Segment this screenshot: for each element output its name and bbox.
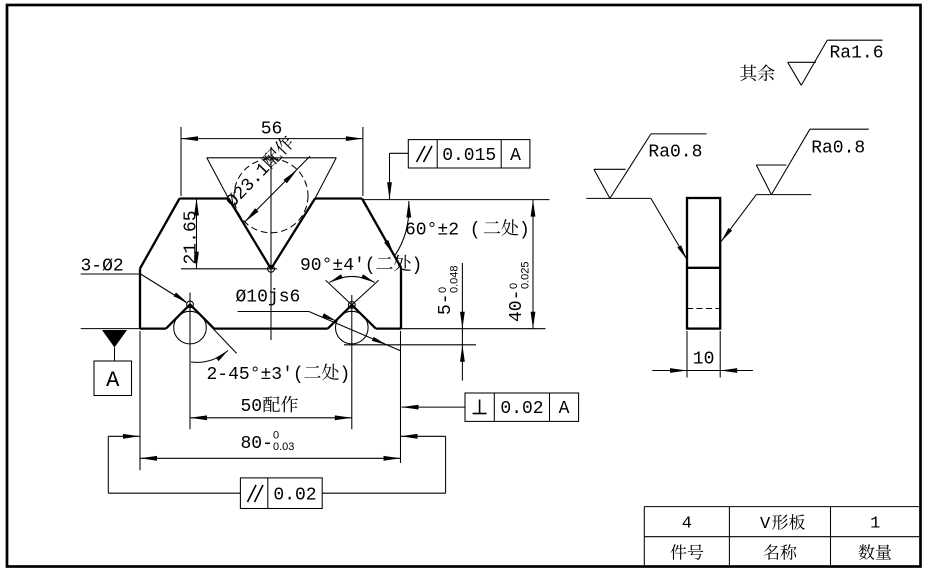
60 deg leader arc: [395, 201, 409, 256]
leader left of // 0.02: [108, 436, 240, 493]
svg-text:0: 0: [437, 287, 449, 293]
dim 40 arrows: [531, 200, 536, 329]
45 deg arc: [191, 351, 228, 363]
dashed gauge circle dia 23.1: [234, 159, 308, 233]
svg-text:Ra0.8: Ra0.8: [648, 143, 702, 163]
dim 10 arrows (outside): [670, 368, 737, 373]
V-groove side extensions above top edge: [207, 158, 336, 199]
dia10js6 leader: [238, 312, 401, 351]
leader right of // 0.02: [322, 436, 445, 493]
svg-text:): ): [340, 365, 351, 385]
pin centerline left: [189, 293, 191, 430]
relief hole at big V apex: [268, 265, 275, 272]
svg-text:2-45°±3'(: 2-45°±3'(: [207, 365, 304, 385]
svg-text:Ra1.6: Ra1.6: [830, 44, 884, 64]
pin centerline right: [351, 295, 353, 429]
leader of perp frame: [402, 406, 466, 408]
3-dia2 leader: [81, 274, 187, 303]
parallel symbol in bottom frame: [248, 485, 264, 502]
tolerance frame // 0.015 A box: [408, 140, 530, 168]
leader arrow left Ra0.8: [677, 245, 687, 259]
dim 21.65 line: [196, 199, 198, 269]
svg-text:5-: 5-: [436, 293, 456, 315]
roughness symbol left Ra0.8: [594, 134, 707, 199]
parallel symbol in frame: [417, 146, 433, 162]
svg-text:Ra0.8: Ra0.8: [811, 139, 865, 159]
side view outline: [687, 198, 720, 329]
svg-text:0.03: 0.03: [273, 441, 294, 453]
svg-text:0: 0: [508, 283, 520, 289]
svg-text:21.65: 21.65: [182, 210, 202, 264]
dim 10 extension lines: [687, 331, 720, 378]
dim 80 arrows: [140, 456, 401, 461]
dim 40-0.025 text (rotated): [507, 261, 532, 322]
svg-text:A: A: [106, 368, 120, 393]
right small V-groove (90 deg) edges: [328, 305, 376, 329]
svg-text:A: A: [510, 146, 521, 166]
leader left Ra0.8: [651, 198, 687, 259]
dia 23.1 dim arrows: [245, 170, 297, 222]
svg-text:40-: 40-: [507, 290, 527, 322]
datum A filled triangle: [102, 330, 127, 348]
svg-text:0.02: 0.02: [500, 399, 543, 419]
datum A stem: [114, 348, 116, 362]
relief hole at right groove apex: [348, 302, 355, 309]
svg-text:0.048: 0.048: [449, 265, 461, 293]
svg-text:V: V: [760, 515, 771, 534]
tolerance frame perp 0.02 A box: [465, 393, 579, 421]
dim 50 arrows: [190, 415, 352, 420]
roughness symbol Ra1.6: [788, 40, 883, 85]
dim 21.65 arrows: [194, 199, 199, 269]
svg-text:60°±2 (: 60°±2 (: [405, 221, 481, 241]
dim 10 line: [652, 370, 753, 372]
gauge pin circle in right groove: [336, 311, 369, 344]
dim 80 line: [140, 457, 401, 459]
side view edge at V apex level: [687, 267, 720, 269]
svg-text:56: 56: [261, 120, 283, 140]
leader arrow right Ra0.8: [721, 228, 732, 241]
leader right Ra0.8: [721, 195, 756, 242]
surface line right Ra0.8: [756, 194, 811, 196]
dim 56 line: [181, 138, 363, 140]
dia 23.1 dimension line at 45 deg: [245, 156, 310, 222]
part outline (V-block plate, front view): [140, 199, 401, 329]
text qiyu (others): [740, 65, 757, 81]
dim 56 arrows: [181, 136, 363, 141]
leader right arrow of // 0.02: [401, 434, 418, 439]
90 deg arc arrows: [329, 274, 374, 282]
bottom surface extension line right: [401, 328, 546, 330]
leader of // 0.015 A: [390, 153, 409, 199]
big V-groove (60 deg) edges: [229, 199, 316, 269]
datum A target line: [81, 328, 140, 330]
top surface extension line: [362, 199, 550, 201]
svg-text:0.02: 0.02: [273, 486, 316, 506]
svg-text:): ): [519, 221, 530, 241]
dia10js6 arrows: [322, 313, 387, 345]
45 deg arc arrow: [216, 351, 228, 362]
svg-text:0: 0: [273, 430, 279, 442]
pin bottom tangent extension line: [344, 344, 476, 346]
svg-text:Ø10js6: Ø10js6: [236, 288, 301, 308]
svg-text:0.015: 0.015: [442, 146, 496, 166]
dim 80 extension right: [400, 331, 402, 463]
V-groove vertical centerline: [270, 147, 272, 340]
dim 56 extension lines: [181, 127, 363, 196]
svg-text:50: 50: [241, 397, 263, 417]
label dia23.1 peizuo (rotated): [222, 133, 299, 212]
tolerance frame // 0.02 box: [240, 478, 322, 509]
dim 40 line: [532, 200, 534, 329]
svg-text:90°±4'(: 90°±4'(: [300, 256, 376, 276]
roughness symbol right Ra0.8: [756, 129, 869, 194]
leader arrow of perp frame: [402, 405, 419, 410]
title cell label shuliang: [859, 544, 875, 560]
surface line left Ra0.8: [586, 197, 651, 199]
svg-text:80-: 80-: [241, 434, 273, 454]
svg-text:): ): [412, 256, 423, 276]
title cell label jianhao: [671, 544, 687, 560]
90 deg groove side extensions: [326, 280, 379, 305]
perpendicular symbol: [473, 400, 487, 414]
45 deg groove side extension line: [195, 309, 237, 353]
dim 5 line: [461, 263, 463, 381]
title cell label mingcheng: [764, 544, 779, 560]
leader arrow of // 0.015 A: [387, 182, 392, 199]
gauge pin circle in left groove: [174, 311, 207, 344]
dim 50 line: [190, 417, 352, 419]
left small V-groove (90 deg) edges: [166, 304, 214, 328]
side view hidden line: [687, 308, 720, 310]
svg-text:A: A: [559, 399, 570, 419]
svg-text:0.025: 0.025: [520, 261, 532, 289]
dim 5 arrows (outside): [460, 312, 465, 362]
3-dia2 arrow: [174, 293, 188, 303]
leader left arrow of // 0.02: [123, 434, 140, 439]
svg-text:1: 1: [870, 515, 880, 534]
relief hole at left groove apex: [187, 301, 194, 308]
svg-text:4: 4: [682, 515, 692, 534]
datum A box: [94, 361, 132, 396]
dim 80 extension left: [139, 331, 141, 470]
svg-text:10: 10: [693, 350, 715, 370]
dim 5-0.048 text (rotated): [436, 265, 461, 315]
60 deg arrows: [384, 201, 411, 257]
90 deg arc: [329, 276, 374, 282]
title block grid: [644, 507, 919, 565]
dim 21.65 extension line at apex level: [181, 268, 277, 270]
